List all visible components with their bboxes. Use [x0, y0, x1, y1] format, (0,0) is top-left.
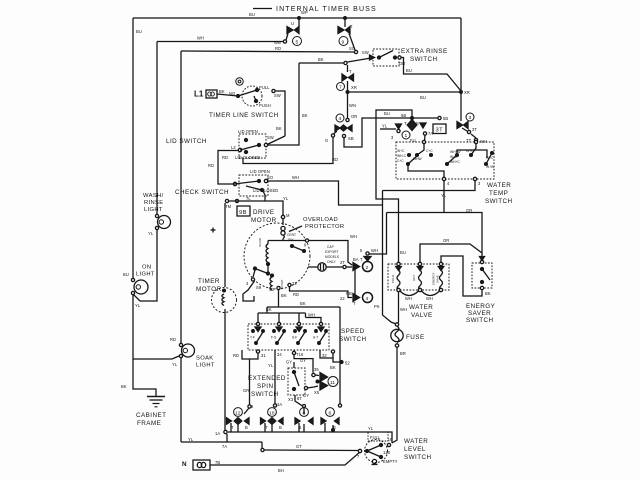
wire: BK from motor S2 down through 52 to connector 6 [339, 307, 341, 404]
svg-text:9: 9 [342, 40, 345, 46]
svg-text:VALVE: VALVE [411, 312, 433, 319]
svg-text:2: 2 [366, 265, 369, 271]
svg-text:WH: WH [405, 296, 412, 301]
wire: energy saver to third valve coil [441, 256, 482, 296]
svg-text:OR: OR [443, 238, 449, 243]
svg-text:10: 10 [269, 411, 275, 417]
wire: BK from vertical to extra rinse switch [299, 62, 344, 64]
svg-text:BR: BR [400, 351, 406, 356]
svg-text:F-S: F-S [271, 336, 277, 340]
svg-text:SPIN: SPIN [257, 383, 274, 390]
svg-text:T: T [353, 301, 356, 306]
svg-text:XR: XR [351, 85, 357, 90]
connector 12 [227, 408, 250, 432]
svg-text:11: 11 [330, 380, 335, 386]
wire: timer motor return to YL bus1 [224, 309, 226, 430]
svg-text:T: T [349, 69, 352, 74]
svg-text:YL: YL [148, 231, 154, 236]
motor: drive motor [237, 206, 310, 289]
wire: YL from water temp 3 to PK line [383, 181, 476, 191]
svg-text:7A: 7A [222, 444, 227, 449]
svg-text:L1: L1 [194, 90, 204, 99]
svg-text:C+C: C+C [426, 149, 433, 153]
svg-text:ENERGY: ENERGY [466, 303, 496, 310]
svg-text:OR: OR [351, 114, 357, 119]
svg-text:CENT: CENT [287, 233, 296, 237]
svg-text:G: G [325, 138, 328, 143]
wire: 5B row and big BU loop to water valve [376, 110, 448, 263]
solenoid: water valve [388, 262, 449, 319]
wire: valve WH common down to fuse top [397, 291, 399, 324]
svg-text:11S: 11S [383, 450, 390, 455]
svg-text:SWITCH: SWITCH [339, 336, 367, 343]
wire: GR from water temp 4 down to energy saver [443, 181, 445, 213]
svg-text:WP: WP [301, 10, 308, 15]
svg-text:T16: T16 [296, 352, 304, 357]
ground: cabinet frame [121, 359, 166, 427]
svg-text:WATER: WATER [404, 438, 428, 445]
overload protector [281, 215, 345, 238]
wire: WH feed from GR node down to connector 2 [360, 213, 387, 262]
wire: top BU bus [133, 17, 461, 19]
svg-text:GY: GY [286, 360, 292, 365]
svg-text:1S: 1S [387, 437, 392, 442]
svg-text:X3: X3 [288, 397, 294, 402]
svg-text:LID SWITCH: LID SWITCH [166, 138, 207, 145]
svg-text:MOTOR: MOTOR [196, 286, 222, 293]
svg-text:PK: PK [374, 304, 380, 309]
connector 4 (top) [325, 92, 357, 143]
svg-text:T: T [265, 425, 268, 430]
svg-text:LID CLOSED: LID CLOSED [235, 155, 260, 160]
svg-text:MOTOR: MOTOR [251, 217, 277, 224]
connector 11 [307, 367, 338, 395]
svg-text:TM: TM [225, 204, 232, 209]
svg-text:RD: RD [208, 163, 214, 168]
svg-text:SPEED: SPEED [341, 328, 365, 335]
svg-text:RD: RD [332, 157, 338, 162]
svg-text:3: 3 [391, 135, 394, 140]
svg-text:FRAME: FRAME [137, 420, 161, 427]
svg-text:RD: RD [170, 337, 176, 342]
terminal L1 [194, 89, 238, 99]
svg-text:WH: WH [371, 248, 378, 253]
svg-text:BU: BU [420, 95, 426, 100]
svg-text:HOT: HOT [412, 275, 416, 282]
svg-text:WH: WH [426, 296, 433, 301]
lamp: wash/rinse light [143, 193, 171, 230]
svg-text:3T: 3T [472, 127, 477, 132]
svg-text:W+C: W+C [397, 149, 405, 153]
svg-text:COLD: COLD [391, 274, 395, 283]
svg-text:9: 9 [251, 404, 254, 409]
svg-text:CABINET: CABINET [136, 412, 166, 419]
svg-text:BK: BK [318, 57, 324, 62]
svg-text:7: 7 [357, 454, 360, 459]
svg-text:SB: SB [348, 136, 354, 141]
wire: OR to hot valve coil [420, 244, 482, 264]
wire: bus2 corner [261, 442, 263, 450]
wire: YL check switch lid-closed to drive motor M [263, 191, 283, 225]
svg-text:SWITCH: SWITCH [466, 317, 494, 324]
wire: SW blade into lid switch [266, 136, 285, 145]
svg-text:SLOW: SLOW [258, 238, 262, 247]
svg-text:BK: BK [219, 89, 225, 94]
wire: WH from check switch lid-open to staircase [267, 181, 383, 205]
svg-text:3: 3 [478, 181, 481, 186]
svg-text:T-F: T-F [250, 336, 255, 340]
lamp: ON light [123, 265, 155, 295]
svg-text:LIGHT: LIGHT [144, 207, 163, 213]
svg-text:RD: RD [233, 353, 239, 358]
svg-text:WN: WN [349, 103, 356, 108]
svg-text:WH-C: WH-C [397, 154, 407, 158]
svg-text:2T: 2T [340, 260, 345, 265]
capacitor: cap export models only [308, 245, 352, 271]
svg-text:ON: ON [142, 265, 151, 271]
svg-text:LEVEL: LEVEL [404, 446, 426, 453]
svg-text:T: T [404, 121, 407, 126]
svg-text:OR: OR [399, 61, 405, 66]
svg-text:SW: SW [274, 93, 281, 98]
wire: bus3 GT to water level switch common [263, 449, 360, 452]
svg-text:S-F: S-F [292, 336, 297, 340]
wire: TM drop to timer motor [224, 203, 226, 287]
wire: WH from protector to node 9 and capacitor row [268, 239, 283, 241]
wire: X5 output down to connector 8 [295, 395, 304, 414]
svg-text:8: 8 [299, 425, 302, 430]
connector 3 (right) [457, 92, 487, 144]
svg-text:WH: WH [480, 139, 487, 144]
svg-text:3: 3 [246, 281, 249, 286]
svg-text:WASH/: WASH/ [143, 193, 164, 199]
lamp: soak light [170, 337, 215, 369]
connector 7 [337, 65, 357, 93]
svg-text:N: N [182, 461, 187, 468]
wire: RD from motor 22 to connector 4 [290, 287, 353, 298]
svg-text:RB: RB [346, 291, 352, 296]
svg-text:YL: YL [135, 303, 141, 308]
svg-text:BK: BK [276, 126, 282, 131]
svg-text:BU: BU [400, 250, 406, 255]
wire: speed switch 32 output to node 52 [320, 350, 350, 370]
wire: N line to water level switch [210, 452, 360, 465]
svg-text:BU: BU [249, 12, 255, 17]
svg-text:T: T [360, 257, 363, 262]
svg-text:CAP: CAP [327, 245, 335, 249]
svg-text:S-T: S-T [313, 336, 318, 340]
svg-text:GT: GT [296, 444, 302, 449]
legend: internal timer buss [253, 6, 377, 13]
svg-text:22: 22 [292, 281, 297, 286]
wire: speed switch T16 to extended spin switch [286, 350, 313, 373]
svg-text:WH: WH [292, 175, 299, 180]
connector 8 [295, 408, 313, 432]
switch: lid switch [166, 129, 268, 160]
svg-text:BU: BU [384, 111, 390, 116]
wire: speed switch 34 output to connector 10 [268, 350, 282, 407]
wire: SB from connector4 to 5B row [344, 118, 412, 147]
svg-text:X5: X5 [314, 390, 320, 395]
svg-text:SWITCH: SWITCH [404, 454, 432, 461]
switch: water temp switch [396, 140, 513, 205]
wire: YL bus0 from soak light line [181, 441, 262, 443]
svg-text:BK: BK [330, 365, 336, 370]
wire: SW output of timer line switch [275, 91, 285, 136]
svg-text:BK: BK [121, 384, 127, 389]
switch: speed switch [248, 322, 367, 350]
svg-text:SAVER: SAVER [468, 310, 491, 317]
svg-text:DRIVE: DRIVE [253, 209, 275, 216]
svg-text:5B: 5B [401, 113, 406, 118]
svg-text:3T: 3T [436, 128, 444, 134]
svg-text:TIMER LINE SWITCH: TIMER LINE SWITCH [209, 112, 279, 119]
connector 4 (to timer, lower) [346, 267, 373, 306]
svg-text:9B: 9B [239, 210, 247, 216]
switch: extra rinse switch [370, 48, 448, 66]
svg-text:7B: 7B [215, 460, 220, 465]
fuse [391, 323, 425, 356]
terminal N [182, 460, 220, 470]
svg-text:1: 1 [405, 133, 408, 139]
svg-text:3: 3 [469, 115, 472, 121]
svg-text:WHW: WHW [413, 157, 422, 161]
svg-text:WATER: WATER [409, 304, 433, 311]
svg-text:YL: YL [368, 426, 374, 431]
wire: outer right line down to XR [460, 18, 462, 92]
svg-text:5B: 5B [443, 116, 448, 121]
svg-text:LID CLOSED: LID CLOSED [253, 188, 278, 193]
connector 5 (WH bus to timer buss) [274, 10, 308, 46]
svg-text:M: M [286, 213, 290, 218]
wire: BK from RD bus corner down to lid switch [267, 63, 299, 145]
wire: RD bus [181, 51, 355, 52]
svg-text:SW: SW [288, 238, 294, 242]
connector 6 [321, 408, 339, 432]
svg-text:1A: 1A [215, 431, 220, 436]
connector 9 (RD bus to timer buss) [338, 17, 358, 54]
svg-text:MODELS: MODELS [325, 255, 340, 259]
svg-text:BU: BU [406, 68, 412, 73]
svg-text:4: 4 [447, 181, 450, 186]
svg-text:YL: YL [268, 363, 274, 368]
svg-text:5: 5 [360, 248, 363, 253]
mark: plus [211, 228, 216, 233]
svg-text:W+C: W+C [450, 155, 458, 159]
svg-text:EMPTY: EMPTY [383, 459, 398, 464]
connector 10 [261, 408, 284, 432]
svg-text:LID OPEN: LID OPEN [238, 129, 258, 134]
svg-text:EXTENDED: EXTENDED [248, 375, 286, 382]
wire: BR fuse to water level switch [392, 347, 397, 443]
svg-text:C+C: C+C [397, 159, 404, 163]
svg-text:BK: BK [302, 113, 308, 118]
motor terminal S2 [277, 286, 280, 289]
svg-text:YL: YL [172, 362, 178, 367]
wire: WH drop to wash/rinse light [156, 42, 158, 217]
svg-text:GR: GR [466, 208, 472, 213]
svg-text:W+W: W+W [486, 165, 495, 169]
svg-text:BU: BU [136, 29, 142, 34]
svg-text:9: 9 [304, 243, 307, 248]
svg-text:B: B [416, 121, 419, 126]
svg-text:WB: WB [274, 40, 281, 45]
wire: speed switch 31 output (GR) [242, 350, 266, 409]
svg-text:7: 7 [339, 85, 342, 91]
svg-text:RINSE: RINSE [144, 200, 163, 206]
connector 1 (diamond) [402, 120, 446, 144]
switch: extended spin switch [248, 368, 315, 402]
switch: check switch [175, 169, 278, 196]
svg-text:WH: WH [350, 234, 357, 239]
motor: timer motor [196, 278, 237, 313]
svg-text:TIMER: TIMER [198, 278, 220, 285]
svg-text:GY: GY [300, 358, 306, 363]
wire: BK ladder feeding speed switch [278, 290, 280, 307]
svg-text:GR: GR [243, 388, 249, 393]
svg-text:31: 31 [261, 353, 266, 358]
wire: motor terminal 3 jog to speed switch [243, 281, 255, 301]
wire: BU extra rinse output to XR node [401, 58, 461, 92]
svg-text:SW: SW [267, 135, 274, 140]
svg-text:BK: BK [266, 307, 272, 312]
svg-text:PROTECTOR: PROTECTOR [305, 224, 344, 230]
svg-text:T: T [231, 425, 234, 430]
svg-text:XR: XR [464, 90, 470, 95]
svg-text:SAVE: SAVE [436, 275, 440, 283]
wire: XR row to right edge [348, 91, 462, 93]
svg-text:PUSH: PUSH [259, 103, 271, 108]
svg-text:22: 22 [340, 296, 345, 301]
svg-text:NO: NO [229, 91, 235, 96]
wire: YL down from ON light to soak light row [133, 294, 179, 359]
svg-text:FULL: FULL [370, 435, 381, 440]
svg-text:BA: BA [353, 257, 359, 262]
svg-text:SWITCH: SWITCH [251, 391, 279, 398]
switch: water level switch [357, 432, 432, 465]
svg-text:BH: BH [278, 468, 284, 473]
svg-text:4: 4 [366, 296, 369, 302]
svg-text:INTERNAL TIMER BUSS: INTERNAL TIMER BUSS [276, 6, 377, 13]
svg-text:YL: YL [283, 196, 289, 201]
svg-text:WH: WH [197, 36, 204, 41]
svg-text:BK: BK [485, 291, 491, 296]
svg-text:SOAK: SOAK [196, 356, 214, 362]
svg-text:S9: S9 [256, 285, 262, 290]
wire: YL bus1 (connector returns) [228, 432, 392, 443]
svg-text:GY: GY [303, 393, 309, 398]
svg-text:7L: 7L [246, 196, 251, 201]
svg-text:34: 34 [277, 352, 282, 357]
switch: timer line switch [209, 78, 281, 119]
svg-text:PULL: PULL [259, 85, 270, 90]
svg-text:RD: RD [293, 292, 299, 297]
svg-text:52: 52 [345, 361, 350, 366]
svg-text:12: 12 [235, 411, 241, 417]
svg-text:ONLY: ONLY [327, 260, 337, 264]
svg-text:3A: 3A [277, 402, 282, 407]
svg-text:35: 35 [314, 367, 319, 372]
svg-text:32: 32 [322, 353, 327, 358]
svg-text:U: U [291, 21, 294, 26]
svg-text:WH+C: WH+C [450, 160, 460, 164]
svg-text:SWITCH: SWITCH [485, 198, 513, 205]
svg-text:OVERLOAD: OVERLOAD [303, 217, 338, 223]
wire: RD left drop to soak light [180, 51, 182, 344]
svg-text:LIGHT: LIGHT [136, 272, 155, 278]
svg-text:S2: S2 [269, 287, 275, 292]
wire: RD lid switch common to check switch common [218, 151, 239, 185]
svg-text:FUSE: FUSE [406, 334, 425, 341]
svg-text:BK: BK [281, 293, 287, 298]
switch: energy saver switch [466, 257, 496, 325]
svg-text:BK: BK [300, 301, 306, 306]
svg-text:CHECK SWITCH: CHECK SWITCH [175, 189, 229, 196]
svg-text:LIGHT: LIGHT [196, 363, 215, 369]
svg-text:YL: YL [382, 124, 388, 129]
wire: left outer BU/YL line [132, 18, 134, 280]
svg-text:8T: 8T [297, 396, 302, 401]
wire: WH bus [157, 41, 283, 43]
wire: YL row with connector 3 terminal [380, 124, 425, 142]
svg-text:RD: RD [222, 155, 228, 160]
svg-text:SWITCH: SWITCH [410, 56, 438, 63]
node: TM terminal row to timer motor [225, 196, 265, 209]
svg-text:EXPORT: EXPORT [325, 250, 339, 254]
svg-text:TEMP: TEMP [489, 190, 508, 197]
svg-text:BU: BU [123, 272, 129, 277]
svg-text:SW: SW [362, 50, 369, 55]
svg-text:WATER: WATER [487, 182, 511, 189]
svg-text:EXTRA RINSE: EXTRA RINSE [401, 48, 448, 55]
svg-text:YL: YL [188, 437, 194, 442]
svg-text:LID OPEN: LID OPEN [250, 169, 270, 174]
svg-text:L2: L2 [231, 145, 236, 150]
svg-text:B: B [279, 425, 282, 430]
svg-text:5: 5 [296, 40, 299, 46]
svg-text:WH: WH [308, 313, 315, 318]
motor windings [246, 233, 305, 290]
connector 2 (to timer) [353, 257, 373, 272]
svg-text:8: 8 [303, 411, 306, 417]
wire: RD from connector4 down-left to lid/check common [243, 137, 333, 164]
wire: wash/rinse light return YL [133, 229, 157, 301]
svg-text:WH: WH [400, 307, 407, 312]
svg-text:RD: RD [275, 46, 281, 51]
svg-text:6: 6 [329, 411, 332, 417]
svg-text:B: B [245, 425, 248, 430]
svg-text:4: 4 [339, 116, 342, 122]
